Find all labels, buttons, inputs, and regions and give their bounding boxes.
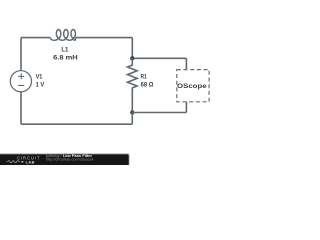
svg-text:6.8 mH: 6.8 mH [53,55,78,62]
wire scope bottom stub [185,102,187,113]
wire top rail right segment [76,37,133,39]
V1 plus sign [18,73,24,79]
watermark bar [0,154,129,167]
wire node B down to bottom rail [131,113,133,125]
oscilloscope OScope dashed box [177,70,209,102]
svg-text:68 Ω: 68 Ω [141,81,154,88]
watermark logo waveform [7,161,21,163]
resistor R1 [128,58,138,112]
svg-text:R1: R1 [141,73,148,80]
watermark logo arrow [22,161,25,163]
wire top rail left segment [21,37,50,39]
svg-text:OScope: OScope [177,83,207,90]
wire scope top stub [185,58,187,69]
svg-text:http://circuitlab.com/c6sacsk: http://circuitlab.com/c6sacsk [46,158,94,162]
svg-text:1 V: 1 V [36,82,45,89]
node A junction dot [130,56,134,60]
wire bottom rail [21,123,132,125]
node B junction dot [130,110,134,114]
svg-text:L1: L1 [61,47,68,54]
wire bottom-left vertical (to V1 bottom) [20,92,22,124]
V1 minus sign [18,84,24,86]
svg-text:LAB: LAB [26,159,35,164]
inductor L1 [50,30,75,41]
wire top-left vertical (V1 top to top rail) [20,38,22,71]
wire down to node A [131,38,133,59]
wire node A to scope branch [132,57,186,59]
voltage source V1 [10,71,31,92]
wire node B to scope bottom [132,112,186,114]
svg-text:V1: V1 [36,74,43,81]
